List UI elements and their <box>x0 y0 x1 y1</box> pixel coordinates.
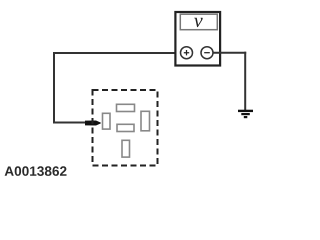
voltmeter V1 body <box>175 12 220 66</box>
wire: bottom horizontal segment to connector <box>53 122 87 124</box>
relay connector C1 (dashed outline) <box>93 90 158 166</box>
connector pin 2 (top horizontal cavity) <box>117 104 135 111</box>
connector pin 4 (right vertical cavity) <box>141 111 150 131</box>
voltmeter V1 negative terminal (-) <box>201 47 213 59</box>
arrowhead pointing into connector pin 1 <box>85 121 101 126</box>
wire: voltmeter - terminal to top-right corner (horizontal) <box>213 52 246 54</box>
voltmeter V1 value label "V" <box>194 18 203 27</box>
ground symbol <box>238 111 253 117</box>
wire: right vertical segment down to ground <box>244 52 246 110</box>
voltmeter V1 positive terminal (+) <box>181 47 193 59</box>
connector pin 1 (left vertical cavity) <box>103 113 111 129</box>
wire: left vertical segment <box>53 52 55 123</box>
figure number label "A0013862" <box>5 166 67 176</box>
wire: voltmeter + terminal to top-left corner (horizontal) <box>54 52 181 54</box>
connector pin 3 (middle horizontal cavity) <box>117 124 134 131</box>
connector pin 5 (bottom vertical cavity) <box>122 140 130 157</box>
voltmeter V1 display window <box>180 14 217 30</box>
